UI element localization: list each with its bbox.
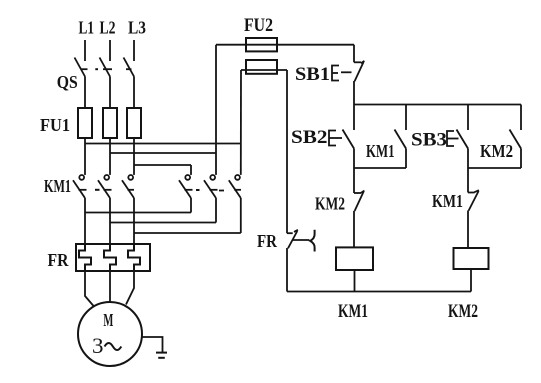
wire crossover C [134,232,241,234]
wire KM2 c5 down [215,198,217,223]
svg-text:KM2: KM2 [480,141,513,161]
svg-text:FU1: FU1 [40,115,70,135]
svg-text:KM1: KM1 [432,191,463,211]
switch QS pole 1 [75,58,88,77]
wire KM1 c3 down [133,198,135,245]
switch QS pole 2 [100,58,113,77]
interlock KM1 contact (NC) [468,168,479,248]
wire coil KM2 to rail [470,269,472,292]
motor 3-phase label [92,333,121,358]
contactor KM2 main contact 5 [204,175,218,198]
wire SB2/KM1aux bottom [354,167,406,169]
svg-text:SB1: SB1 [295,64,330,85]
button SB1 actuator [332,66,352,81]
contactor KM2 main contact 6 [229,175,241,198]
switch QS pole 3 [124,58,135,77]
svg-text:FU2: FU2 [244,15,273,36]
wire control tap 1 (to c5 / L2 bus) [215,45,217,175]
wire KM2 c4 down [190,198,192,213]
wire KM2 c6 down [240,198,242,233]
wire bus L2 tap [110,152,216,154]
fuse FU2 element 2 [246,60,277,74]
wire L3 drop [133,40,135,61]
svg-text:QS: QS [57,72,78,92]
thermal relay FR box [76,244,150,271]
fuse FU2 element 1 [246,38,277,51]
wire control tap 2 (to c6 / L1 bus) [240,70,242,175]
contact KM1 aux (NO) [395,105,407,169]
wire FU2 lower run [241,69,287,71]
fuse FU1 element 1 [78,108,92,138]
svg-text:SB3: SB3 [411,130,447,151]
ground symbol [156,353,167,358]
thermal contact FR (NC) [287,230,315,252]
wire QS to FU1 phase3 [133,77,135,109]
svg-text:L2: L2 [100,18,116,38]
button SB3 contact (NO) [457,105,469,169]
ground wire [142,337,163,352]
contactor KM2 main contact 4 [179,175,193,198]
QS linkage dash-dot [95,68,98,70]
KM2 linkage dash-dot [196,189,224,192]
motor M circle [78,302,142,366]
wire bottom rail [287,291,471,293]
interlock KM2 contact (NC) [354,168,364,247]
wire SB1 bottom [353,81,355,105]
wire coil KM1 to rail [354,270,356,292]
wire QS to FU1 phase1 [84,77,86,109]
contact KM2 aux (NO) [510,105,522,169]
wire left control rail upper [286,70,288,233]
wire control bus [354,104,521,106]
FR heater 3 [128,245,140,271]
wire KM1 c1 down [84,198,86,245]
wire FU2 upper run [216,44,354,46]
contactor KM1 main contact 1 [73,175,87,198]
button SB2 contact (NO) [343,105,355,169]
wire L2 drop [109,40,111,61]
wire QS to FU1 phase2 [109,77,111,109]
svg-text:L3: L3 [128,18,146,38]
coil KM2 [454,248,489,269]
svg-text:SB2: SB2 [291,127,328,148]
svg-text:KM2: KM2 [448,301,478,322]
wire crossover B [110,222,216,224]
fuse FU1 element 2 [103,108,117,138]
wire FR to motor V [109,271,111,302]
wire KM1 c2 down [109,198,111,245]
svg-text:3: 3 [92,333,104,358]
wire L1 drop [84,40,86,61]
svg-text:FR: FR [257,231,278,251]
wire left control rail lower [286,248,288,292]
fuse FU1 element 3 [127,108,141,138]
wire L3 feed to KM2 contact 4 [190,165,192,175]
svg-text:KM1: KM1 [44,176,71,196]
svg-text:M: M [103,310,113,330]
wire FR to motor W [126,271,134,305]
svg-text:KM1: KM1 [338,301,368,322]
contactor KM1 main contact 3 [122,175,134,198]
wire SB1 top [353,45,355,63]
svg-text:FR: FR [48,250,70,270]
wire bus L3 tap [134,164,191,166]
wire FU1 to KM1 contact phase3 [133,138,135,175]
wire FR to motor U [85,271,94,307]
FR heater 2 [104,245,116,271]
button SB2 actuator [329,131,342,146]
wire bus L1 tap [85,143,241,145]
contactor KM1 main contact 2 [98,175,112,198]
coil KM1 [336,247,373,270]
FR heater 1 [79,245,91,271]
wire FU1 to KM1 contact phase1 [84,138,86,175]
wire crossover A [85,212,191,214]
svg-text:KM2: KM2 [315,194,345,214]
svg-text:KM1: KM1 [366,141,395,161]
button SB1 contact (NC) [354,61,364,81]
wire FU1 to KM1 contact phase2 [109,138,111,175]
button SB3 actuator [447,131,459,146]
wire SB3/KM2aux bottom [468,167,521,169]
svg-text:L1: L1 [79,18,95,38]
KM1 linkage dash-dot [95,189,100,191]
